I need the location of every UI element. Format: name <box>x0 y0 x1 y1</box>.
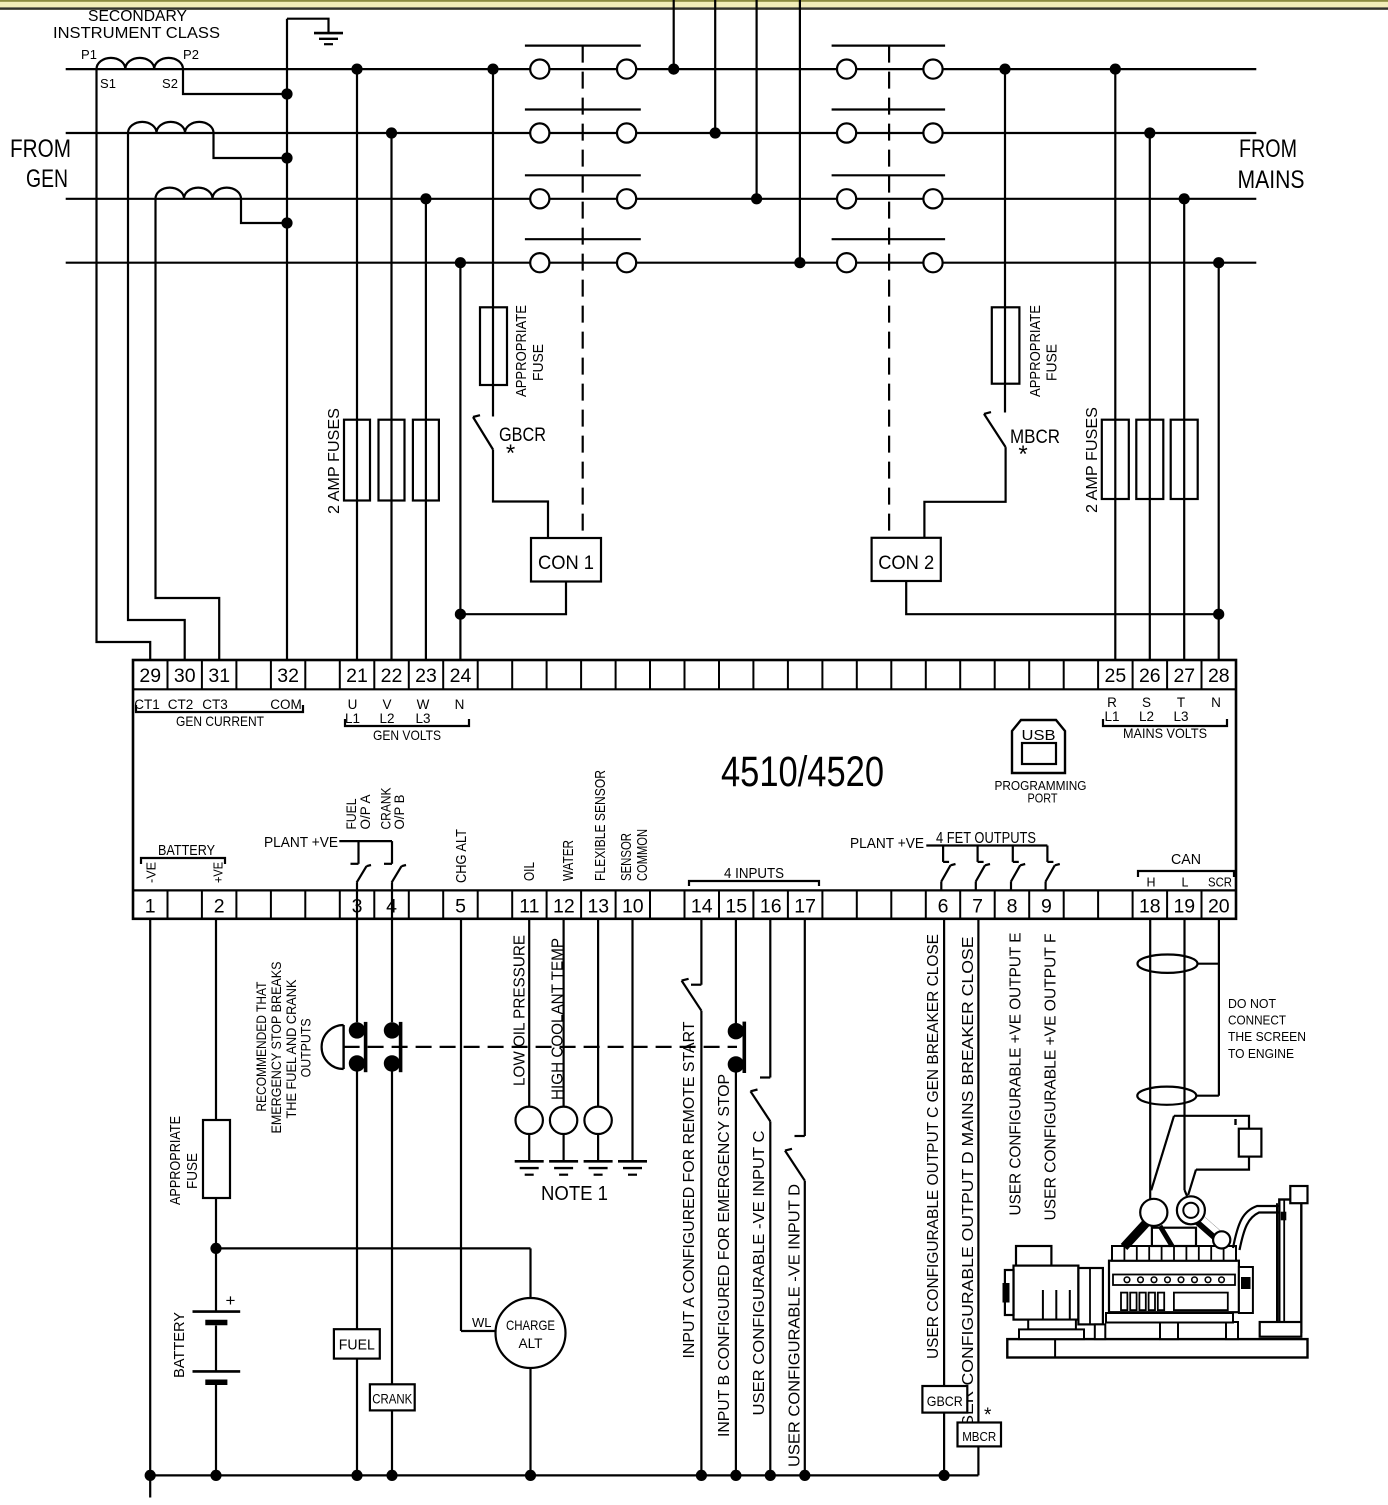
svg-text:13: 13 <box>587 896 609 918</box>
svg-text:SENSOR: SENSOR <box>619 833 635 881</box>
svg-text:COMMON: COMMON <box>635 829 651 881</box>
svg-text:28: 28 <box>1208 665 1230 687</box>
svg-text:DO NOT: DO NOT <box>1228 996 1276 1011</box>
svg-text:CON 2: CON 2 <box>878 553 934 574</box>
svg-text:L: L <box>1182 876 1189 890</box>
svg-text:APPROPRIATE: APPROPRIATE <box>1027 305 1044 397</box>
svg-text:CAN: CAN <box>1171 851 1201 868</box>
svg-text:L3: L3 <box>1173 709 1188 724</box>
svg-text:FUSE: FUSE <box>1044 344 1061 381</box>
svg-text:GEN VOLTS: GEN VOLTS <box>373 727 441 743</box>
svg-text:2 AMP FUSES: 2 AMP FUSES <box>326 408 343 514</box>
svg-text:N: N <box>455 697 465 712</box>
svg-text:WATER: WATER <box>561 840 577 881</box>
svg-text:FROM: FROM <box>10 135 71 163</box>
svg-text:FUSE: FUSE <box>530 344 547 381</box>
svg-text:FLEXIBLE SENSOR: FLEXIBLE SENSOR <box>593 770 609 881</box>
svg-text:CRANK: CRANK <box>372 1392 412 1407</box>
svg-text:O/P B: O/P B <box>392 795 407 830</box>
svg-text:+: + <box>226 1291 236 1310</box>
svg-text:SECONDARY: SECONDARY <box>88 8 187 25</box>
svg-text:FUEL: FUEL <box>339 1337 375 1354</box>
svg-text:W: W <box>417 697 430 712</box>
svg-text:O/P A: O/P A <box>358 795 373 830</box>
svg-text:V: V <box>382 697 391 712</box>
svg-text:31: 31 <box>208 665 230 687</box>
svg-text:GEN CURRENT: GEN CURRENT <box>176 713 264 729</box>
svg-text:+VE: +VE <box>211 862 226 883</box>
svg-text:30: 30 <box>174 665 196 687</box>
svg-text:PLANT +VE: PLANT +VE <box>264 834 338 851</box>
svg-text:17: 17 <box>794 896 816 918</box>
svg-text:EMERGENCY STOP BREAKS: EMERGENCY STOP BREAKS <box>268 962 284 1134</box>
svg-text:USER CONFIGURABLE -VE INPUT D: USER CONFIGURABLE -VE INPUT D <box>787 1184 804 1467</box>
svg-text:S: S <box>1142 695 1151 710</box>
svg-text:INPUT B CONFIGURED FOR EMERGEN: INPUT B CONFIGURED FOR EMERGENCY STOP <box>716 1074 733 1437</box>
svg-text:APPROPRIATE: APPROPRIATE <box>168 1116 184 1205</box>
svg-text:PORT: PORT <box>1028 792 1058 806</box>
svg-text:22: 22 <box>381 665 403 687</box>
svg-text:U: U <box>348 697 358 712</box>
svg-text:CHARGE: CHARGE <box>506 1317 555 1333</box>
svg-text:OUTPUTS: OUTPUTS <box>298 1018 314 1077</box>
svg-text:FUEL: FUEL <box>344 798 359 829</box>
svg-text:23: 23 <box>415 665 437 687</box>
svg-text:INSTRUMENT CLASS: INSTRUMENT CLASS <box>53 25 220 42</box>
svg-text:BATTERY: BATTERY <box>158 842 215 859</box>
svg-text:L2: L2 <box>1139 709 1154 724</box>
svg-text:5: 5 <box>455 896 466 918</box>
svg-text:21: 21 <box>346 665 368 687</box>
svg-text:2 AMP FUSES: 2 AMP FUSES <box>1084 407 1101 513</box>
svg-text:CONNECT: CONNECT <box>1228 1013 1286 1028</box>
svg-text:26: 26 <box>1139 665 1161 687</box>
svg-text:FROM: FROM <box>1239 135 1297 163</box>
svg-text:NOTE 1: NOTE 1 <box>541 1183 608 1205</box>
svg-text:*: * <box>984 1405 992 1426</box>
svg-text:L2: L2 <box>379 711 394 726</box>
svg-text:CT3: CT3 <box>202 697 228 712</box>
svg-text:CHG ALT: CHG ALT <box>453 829 470 883</box>
svg-text:15: 15 <box>725 896 747 918</box>
svg-text:6: 6 <box>938 896 949 918</box>
svg-text:S1: S1 <box>100 76 116 91</box>
svg-text:14: 14 <box>691 896 713 918</box>
svg-text:24: 24 <box>450 665 472 687</box>
svg-text:MAINS: MAINS <box>1238 166 1305 194</box>
svg-text:TO ENGINE: TO ENGINE <box>1228 1046 1294 1061</box>
svg-text:USB: USB <box>1022 727 1056 744</box>
svg-text:4510/4520: 4510/4520 <box>721 748 884 796</box>
svg-text:USER CONFIGURABLE -VE INPUT C: USER CONFIGURABLE -VE INPUT C <box>751 1131 768 1416</box>
svg-text:1: 1 <box>145 896 156 918</box>
svg-text:R: R <box>1107 695 1117 710</box>
svg-text:10: 10 <box>622 896 644 918</box>
svg-text:LOW OIL PRESSURE: LOW OIL PRESSURE <box>512 935 529 1086</box>
svg-text:16: 16 <box>760 896 782 918</box>
svg-text:MBCR: MBCR <box>962 1429 996 1444</box>
svg-text:HIGH COOLANT TEMP: HIGH COOLANT TEMP <box>550 938 567 1100</box>
svg-text:*: * <box>1018 441 1027 468</box>
svg-text:18: 18 <box>1139 896 1161 918</box>
svg-text:RECOMMENDED THAT: RECOMMENDED THAT <box>253 981 269 1111</box>
svg-text:S2: S2 <box>162 76 178 91</box>
svg-text:OIL: OIL <box>522 862 538 881</box>
svg-text:GBCR: GBCR <box>927 1393 963 1409</box>
svg-text:N: N <box>1211 695 1221 710</box>
svg-text:INPUT A CONFIGURED FOR REMOTE: INPUT A CONFIGURED FOR REMOTE START <box>681 1021 698 1358</box>
svg-text:USER CONFIGURABLE OUTPUT C GEN: USER CONFIGURABLE OUTPUT C GEN BREAKER C… <box>925 934 942 1359</box>
svg-text:7: 7 <box>972 896 983 918</box>
svg-text:WL: WL <box>472 1315 492 1330</box>
svg-text:COM: COM <box>270 697 302 712</box>
svg-text:L1: L1 <box>345 711 360 726</box>
svg-text:SCR: SCR <box>1208 876 1232 890</box>
svg-text:-VE: -VE <box>144 862 159 883</box>
svg-text:9: 9 <box>1041 896 1052 918</box>
svg-text:H: H <box>1146 876 1155 890</box>
svg-text:19: 19 <box>1173 896 1195 918</box>
svg-text:USER CONFIGURABLE OUTPUT D MAI: USER CONFIGURABLE OUTPUT D MAINS BREAKER… <box>960 937 977 1440</box>
svg-text:T: T <box>1177 695 1185 710</box>
svg-text:BATTERY: BATTERY <box>171 1312 188 1378</box>
svg-text:CT2: CT2 <box>168 697 194 712</box>
svg-text:25: 25 <box>1105 665 1127 687</box>
svg-text:P2: P2 <box>183 47 199 62</box>
svg-text:L3: L3 <box>415 711 430 726</box>
svg-text:27: 27 <box>1173 665 1195 687</box>
svg-text:APPROPRIATE: APPROPRIATE <box>513 305 530 397</box>
svg-text:4 INPUTS: 4 INPUTS <box>724 865 784 882</box>
svg-text:USER CONFIGURABLE +VE OUTPUT F: USER CONFIGURABLE +VE OUTPUT F <box>1043 933 1060 1220</box>
svg-text:CT1: CT1 <box>134 697 160 712</box>
svg-text:CON 1: CON 1 <box>538 553 594 574</box>
svg-text:12: 12 <box>553 896 575 918</box>
svg-text:8: 8 <box>1007 896 1018 918</box>
svg-text:11: 11 <box>519 896 539 918</box>
svg-text:USER CONFIGURABLE +VE OUTPUT E: USER CONFIGURABLE +VE OUTPUT E <box>1008 933 1025 1216</box>
svg-text:L1: L1 <box>1104 709 1119 724</box>
svg-text:ALT: ALT <box>519 1335 543 1351</box>
svg-text:THE SCREEN: THE SCREEN <box>1228 1029 1306 1044</box>
svg-text:P1: P1 <box>81 47 97 62</box>
svg-text:2: 2 <box>214 896 225 918</box>
svg-text:32: 32 <box>277 665 299 687</box>
svg-text:29: 29 <box>139 665 161 687</box>
svg-text:PLANT +VE: PLANT +VE <box>850 835 924 852</box>
svg-text:MAINS VOLTS: MAINS VOLTS <box>1123 725 1207 741</box>
svg-text:*: * <box>506 440 515 467</box>
svg-text:FUSE: FUSE <box>185 1153 201 1189</box>
svg-text:20: 20 <box>1208 896 1230 918</box>
svg-text:GEN: GEN <box>26 165 68 193</box>
